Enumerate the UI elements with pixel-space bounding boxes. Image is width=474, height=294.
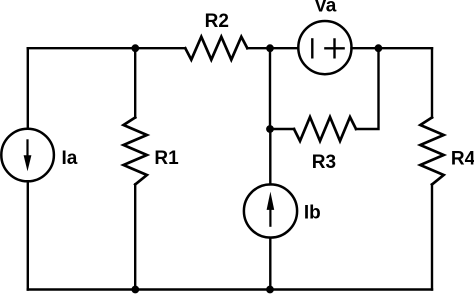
current source Ia: [1, 129, 54, 182]
wire top-left horizontal (left rail to R2): [28, 47, 186, 49]
wire left rail upper segment: [27, 48, 29, 129]
wire node C to top-right corner: [378, 47, 432, 49]
svg-text:R1: R1: [154, 148, 179, 169]
resistor R3: [294, 117, 356, 141]
wire left rail lower segment: [27, 181, 29, 289]
wire R3 to node C riser: [356, 48, 379, 129]
svg-text:R3: R3: [312, 152, 336, 173]
junction node bottom-left: [131, 286, 139, 294]
resistor R1: [124, 118, 147, 185]
wire right rail lower segment: [431, 185, 433, 290]
junction node C: [375, 44, 383, 52]
wire R2 to node B: [247, 47, 270, 49]
svg-text:R4: R4: [451, 149, 474, 170]
arrow of Ia (pointing down): [24, 139, 32, 171]
svg-text:Ib: Ib: [304, 203, 321, 224]
wire right rail upper segment: [431, 48, 433, 117]
arrow of Ib (pointing up): [267, 192, 275, 227]
current source Ib: [244, 184, 297, 237]
wire R1 branch lower: [134, 185, 136, 290]
junction node B: [266, 44, 274, 52]
resistor R4: [420, 118, 443, 185]
Va plus sign: [325, 39, 343, 57]
junction node D: [266, 125, 274, 133]
svg-text:R2: R2: [205, 11, 229, 32]
junction node bottom-middle: [266, 286, 274, 294]
voltage source Va: [298, 21, 351, 74]
wire middle branch node B to node D: [269, 48, 271, 129]
wire R1 branch upper: [134, 48, 136, 117]
Va minus terminal bar: [311, 39, 313, 57]
resistor R2: [185, 37, 247, 60]
junction node at R1 top: [131, 44, 139, 52]
svg-text:Va: Va: [314, 0, 337, 17]
wire Ib to bottom rail: [269, 238, 271, 290]
wire node B to Va: [270, 47, 298, 49]
wire node D to R3: [270, 128, 294, 130]
wire node D to Ib: [269, 129, 271, 184]
svg-text:Ia: Ia: [62, 148, 78, 169]
wire Va to node C: [352, 47, 379, 49]
wire bottom rail: [28, 288, 432, 290]
